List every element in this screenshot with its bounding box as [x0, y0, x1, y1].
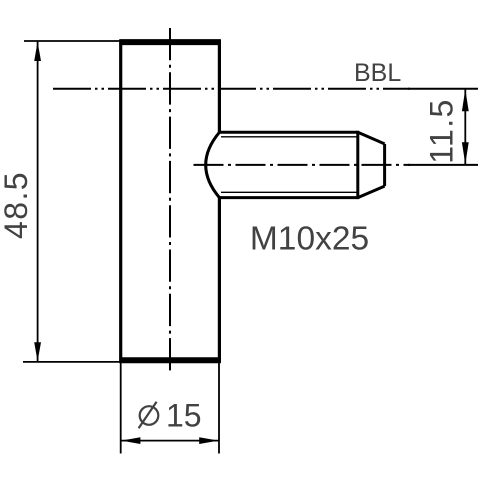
- stud thread minor diameter thin lines: [221, 137, 357, 193]
- dimension 48.5 arrow up: [34, 42, 41, 61]
- dimension 48.5 arrow down: [34, 342, 41, 361]
- node BBL reference phantom line: [53, 88, 478, 90]
- dimension 11.5 dimension line: [464, 89, 466, 165]
- dimension phi15 arrow right: [199, 437, 218, 444]
- dimension 11.5 arrow down: [462, 142, 469, 164]
- node cylinder vertical centerline: [169, 28, 171, 371]
- stud intersection arc: [206, 132, 220, 197]
- dimension phi15 extension lines: [121, 363, 219, 454]
- dimension 48.5 dimension line: [37, 41, 39, 362]
- dimension phi15 diameter symbol: [139, 402, 159, 428]
- dimension 11.5 arrow up: [462, 89, 469, 111]
- dimension phi15 dimension line: [121, 440, 219, 442]
- node stud horizontal centerline: [194, 164, 479, 166]
- svg-text:48.5: 48.5: [0, 171, 34, 239]
- svg-text:BBL: BBL: [354, 59, 401, 87]
- dimension phi15 arrow left: [121, 437, 140, 444]
- cylinder body outline: [119, 40, 220, 363]
- svg-text:11.5: 11.5: [424, 98, 460, 164]
- stud M10 thread outline: [219, 131, 385, 199]
- svg-text:M10x25: M10x25: [250, 221, 369, 258]
- dimension 48.5 extension lines: [23, 41, 122, 362]
- svg-text:15: 15: [166, 398, 202, 434]
